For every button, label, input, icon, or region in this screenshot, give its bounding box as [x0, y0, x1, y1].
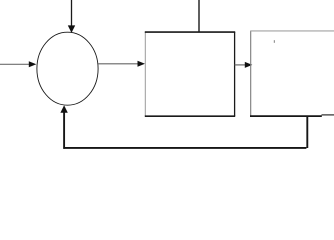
arrowhead input top	[68, 25, 75, 33]
wire tap up from block B1 top	[198, 0, 200, 33]
arrowhead input left	[29, 61, 37, 67]
block B2 (clipped at right edge)	[250, 31, 334, 116]
arrowhead into block1	[138, 61, 146, 67]
arrowhead into block2	[245, 62, 253, 68]
wire circle to block1	[98, 63, 139, 65]
block B1	[145, 32, 235, 116]
wire input left	[0, 63, 30, 65]
arrowhead feedback into circle	[60, 105, 67, 113]
wire feedback drop from B2 bottom	[306, 116, 308, 149]
wire input top	[71, 0, 73, 27]
wire feedback rise to circle	[63, 111, 65, 149]
wire feedback bottom run	[63, 147, 306, 149]
summing junction circle	[37, 32, 98, 105]
mark inside block B2	[274, 40, 275, 43]
wire block1 to block2	[235, 64, 245, 66]
